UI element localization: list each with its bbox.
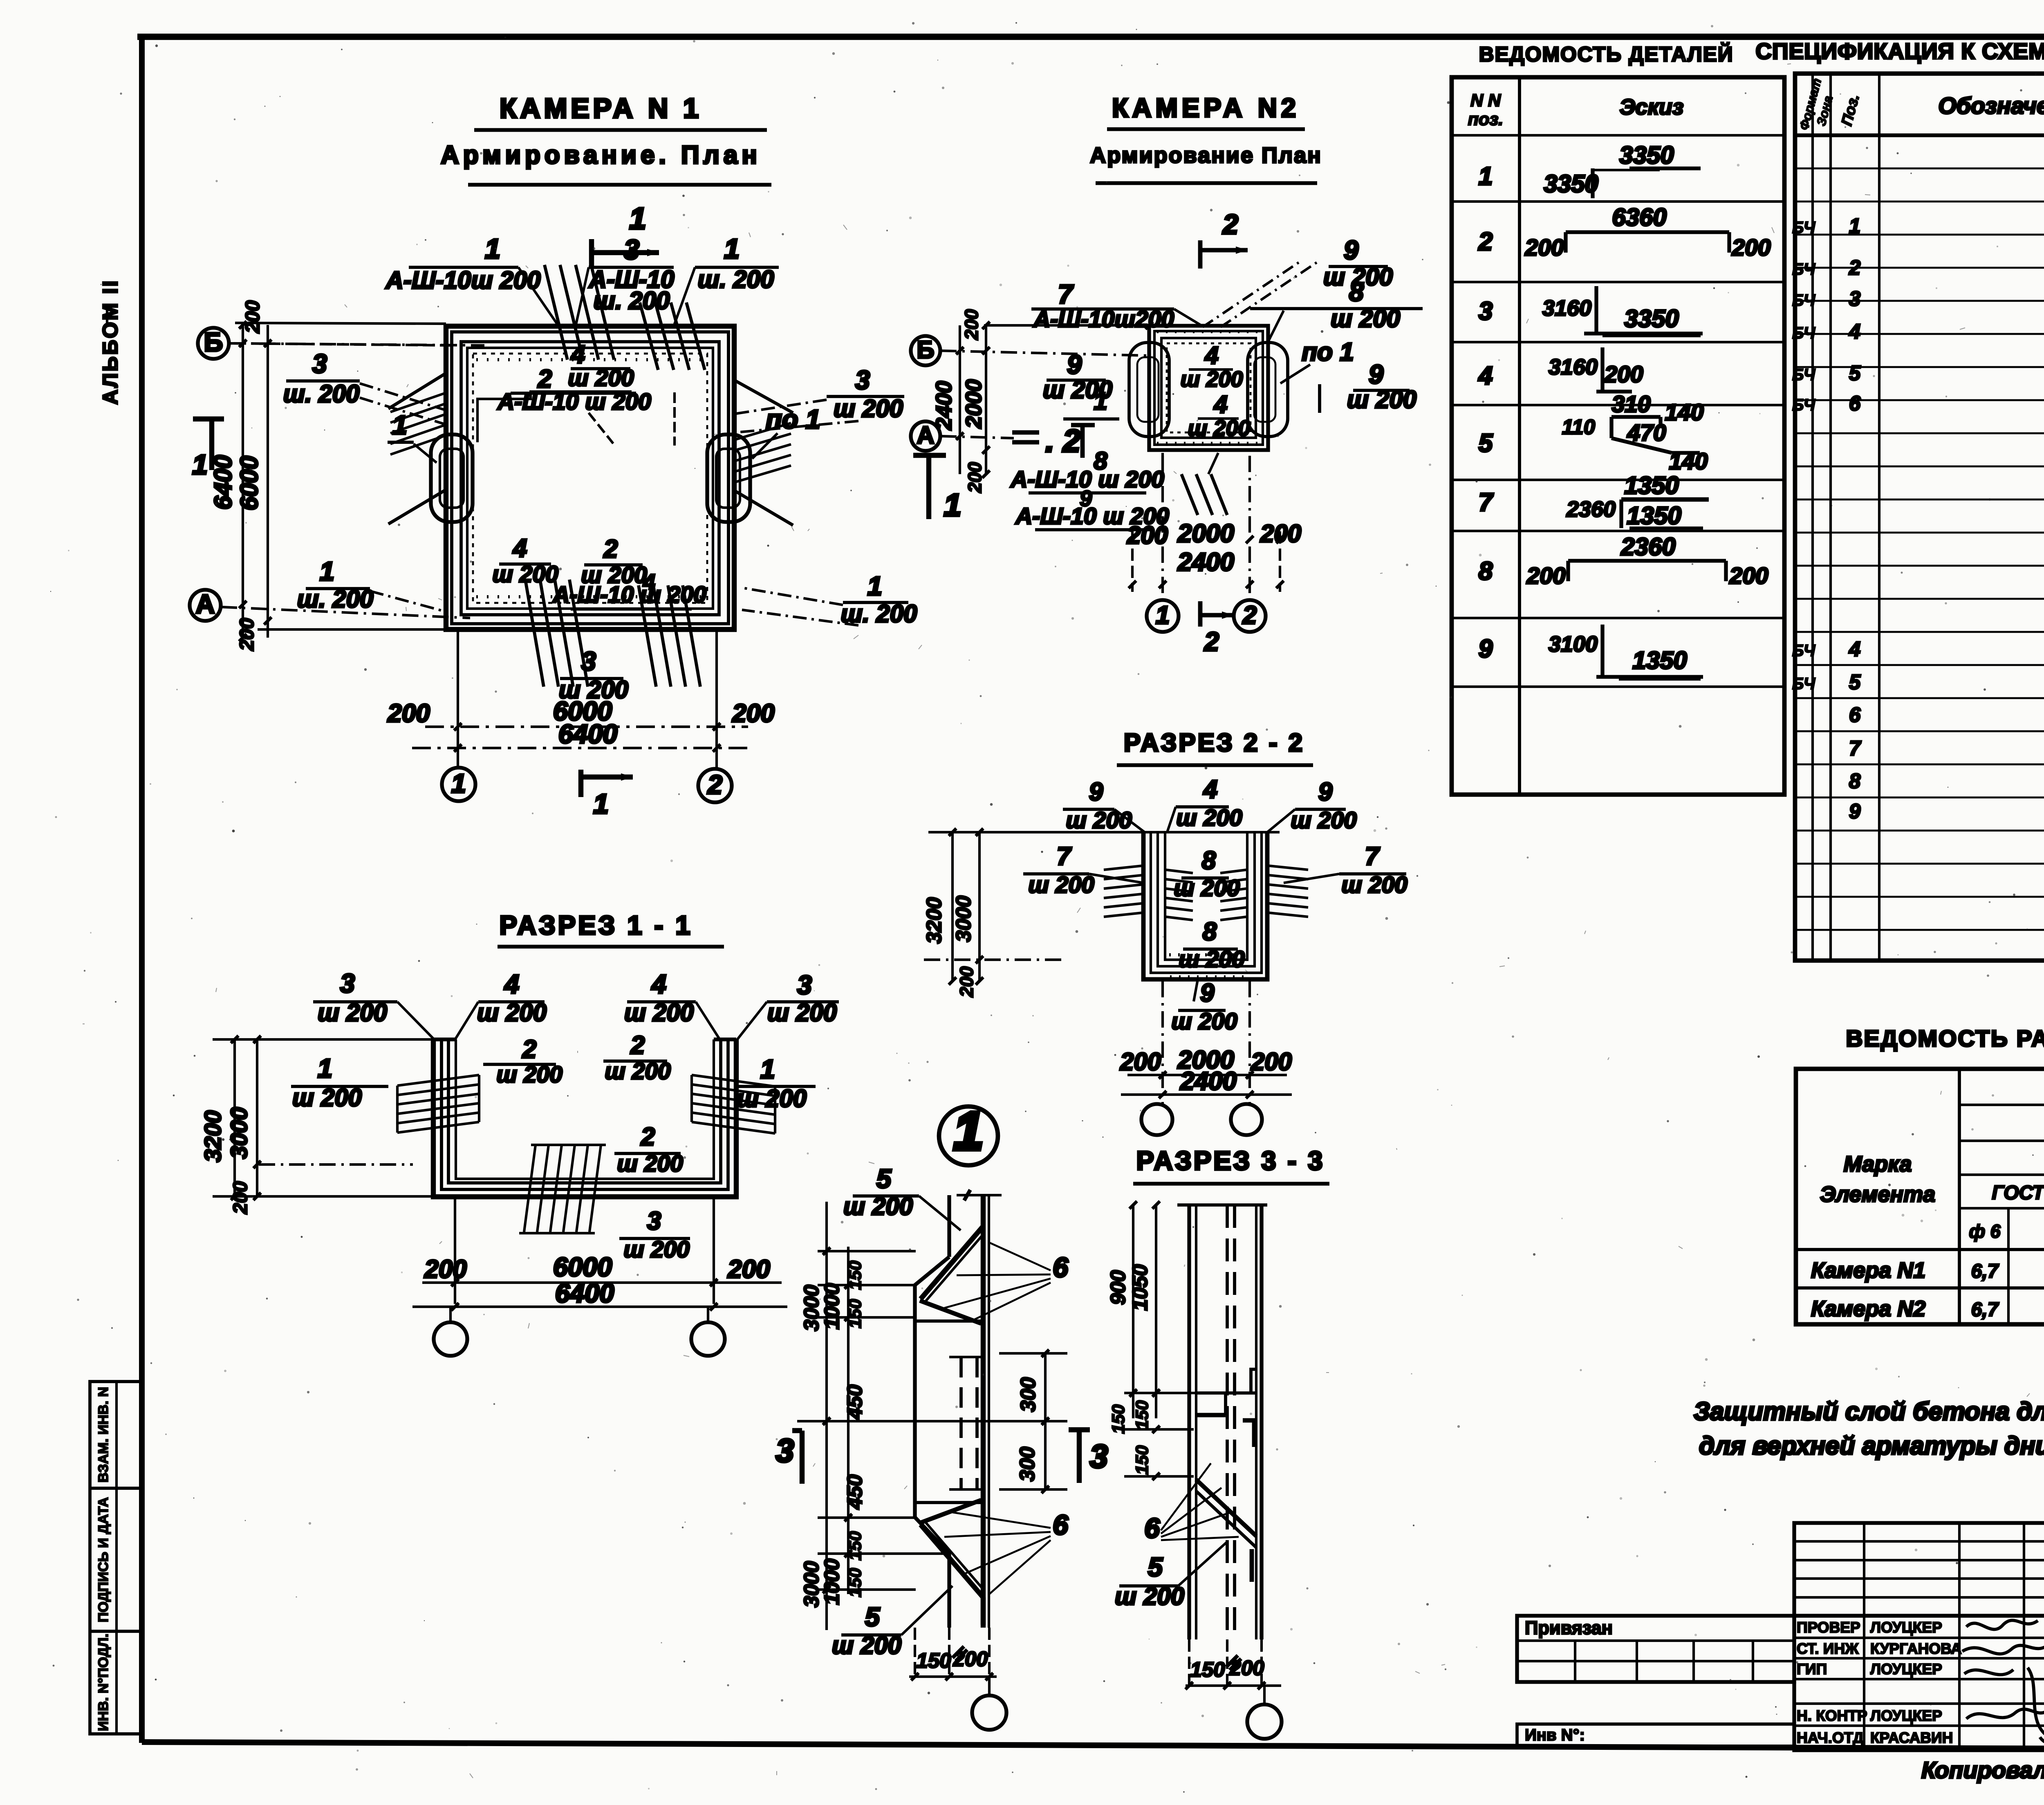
svg-text:СПЕЦИФИКАЦИЯ К СХЕМАМ РАСПОЛОЖ: СПЕЦИФИКАЦИЯ К СХЕМАМ РАСПОЛОЖЕНИЯ АРМАТ… — [1755, 38, 2044, 64]
svg-text:ЛОУЦКЕР: ЛОУЦКЕР — [1870, 1707, 1942, 1724]
svg-text:8: 8 — [1479, 557, 1493, 585]
svg-text:ш. 200: ш. 200 — [283, 380, 360, 408]
svg-text:ВЕДОМОСТЬ РАСХОДА СТАЛИ , КГ: ВЕДОМОСТЬ РАСХОДА СТАЛИ , КГ — [1846, 1026, 2044, 1052]
svg-text:Б: Б — [204, 327, 223, 357]
svg-text:200: 200 — [1120, 1048, 1161, 1075]
svg-text:Армирование План: Армирование План — [1090, 143, 1322, 168]
svg-text:БЧ: БЧ — [1792, 219, 1815, 237]
plan N2 wall rectangles — [1149, 326, 1268, 450]
weld mark 2T plan N2 — [1012, 430, 1039, 435]
svg-text:ш 200: ш 200 — [767, 999, 837, 1026]
section mark 1 left plan N1 — [193, 417, 224, 421]
detail 1 top knee bars — [921, 1226, 983, 1299]
svg-text:140: 140 — [1665, 399, 1703, 425]
dim lines left 2-2 — [951, 832, 954, 981]
hatch bundle top wall left — [545, 265, 567, 360]
svg-text:6400: 6400 — [209, 455, 237, 509]
svg-text:ш 200: ш 200 — [1347, 386, 1416, 413]
svg-text:2: 2 — [1222, 209, 1238, 240]
svg-text:6,7: 6,7 — [1971, 1299, 1999, 1321]
svg-text:2: 2 — [630, 1031, 645, 1059]
svg-text:РАЗРЕЗ 1 - 1: РАЗРЕЗ 1 - 1 — [500, 910, 693, 940]
svg-text:200: 200 — [1127, 522, 1168, 549]
svg-text:Камера N2: Камера N2 — [1811, 1297, 1925, 1321]
svg-text:2: 2 — [641, 1123, 655, 1151]
svg-text:ш 200: ш 200 — [1174, 875, 1240, 901]
svg-text:1: 1 — [629, 202, 646, 235]
svg-text:8: 8 — [1349, 277, 1364, 307]
axis circle 1 plan N2 — [1147, 600, 1179, 632]
svg-text:2: 2 — [707, 770, 722, 799]
svg-text:200: 200 — [1731, 235, 1771, 261]
svg-text:1350: 1350 — [1627, 502, 1681, 529]
title block attach left — [1517, 1616, 1794, 1682]
svg-text:9: 9 — [1089, 778, 1103, 806]
section 3-3 wall strip — [1177, 1203, 1267, 1207]
svg-text:200: 200 — [1260, 520, 1301, 547]
svg-text:2: 2 — [1849, 256, 1860, 279]
svg-text:9: 9 — [1318, 778, 1333, 806]
dim lines left plan N1 — [242, 325, 244, 638]
svg-text:ш 200: ш 200 — [1179, 946, 1245, 972]
svg-text:200: 200 — [727, 1255, 770, 1283]
svg-text:2: 2 — [1478, 228, 1493, 256]
svg-text:ГИП: ГИП — [1797, 1661, 1827, 1677]
svg-text:А-Ш-10ш200: А-Ш-10ш200 — [1033, 306, 1174, 332]
dim lines left plan N2 — [959, 325, 961, 474]
svg-text:9: 9 — [1479, 635, 1493, 663]
svg-text:2: 2 — [1242, 601, 1257, 629]
svg-text:Б: Б — [917, 336, 934, 363]
hatch bundle bottom wall right plan N1 — [639, 585, 656, 687]
axis circle Б plan N1 — [198, 328, 229, 359]
svg-text:1: 1 — [944, 488, 961, 523]
dims 150 shelf 3-3 — [1124, 1392, 1226, 1394]
svg-text:ф 6: ф 6 — [1969, 1221, 2001, 1242]
svg-text:Элемента: Элемента — [1820, 1182, 1935, 1207]
bell mouth lines left plan N1 — [388, 373, 446, 409]
svg-text:5: 5 — [1479, 429, 1493, 457]
detail 1 bottom knee bars — [921, 1525, 983, 1597]
svg-text:1: 1 — [392, 410, 407, 440]
svg-text:ш 200: ш 200 — [1176, 805, 1242, 831]
svg-text:СТ. ИНЖ: СТ. ИНЖ — [1797, 1640, 1859, 1657]
svg-text:ш 200: ш 200 — [318, 999, 387, 1026]
svg-text:Копировал: Коршунова: Копировал: Коршунова — [1921, 1757, 2044, 1783]
title block inv row — [1517, 1724, 1794, 1746]
svg-text:4: 4 — [570, 340, 585, 369]
svg-text:310: 310 — [1611, 391, 1650, 417]
svg-text:Инв N°:: Инв N°: — [1525, 1726, 1585, 1744]
svg-text:3: 3 — [1479, 297, 1493, 325]
axis circle left 2-2 — [1141, 1104, 1172, 1135]
axis circle 1 plan N1 — [442, 768, 475, 801]
hatch bundles walls 2-2 — [1104, 866, 1143, 870]
svg-text:140: 140 — [1669, 448, 1708, 475]
svg-text:КРАСАВИН: КРАСАВИН — [1870, 1729, 1953, 1746]
section mark 1 bottom — [578, 770, 583, 797]
svg-text:3160: 3160 — [1549, 355, 1598, 379]
svg-text:КАМЕРА N2: КАМЕРА N2 — [1112, 93, 1300, 123]
svg-text:300: 300 — [1016, 1377, 1040, 1412]
svg-text:1: 1 — [724, 233, 740, 264]
svg-text:АЛЬБОМ II: АЛЬБОМ II — [99, 279, 122, 405]
svg-text:2400: 2400 — [1180, 1067, 1237, 1095]
svg-text:1: 1 — [954, 1101, 984, 1161]
svg-text:8: 8 — [1849, 769, 1861, 793]
bent bar polyline inside plan N1 — [477, 392, 632, 442]
title block signatures squiggles — [1966, 1620, 2038, 1629]
svg-text:450: 450 — [843, 1474, 866, 1509]
svg-text:БЧ: БЧ — [1792, 366, 1815, 384]
svg-text:2: 2 — [1204, 627, 1219, 656]
svg-text:1000: 1000 — [820, 1283, 843, 1329]
svg-text:ПРОВЕР: ПРОВЕР — [1797, 1619, 1860, 1636]
svg-text:8: 8 — [1203, 918, 1217, 946]
svg-text:Камера N1: Камера N1 — [1811, 1258, 1925, 1283]
svg-text:1000: 1000 — [820, 1559, 843, 1605]
hatch bundle top wall right — [640, 302, 658, 370]
svg-text:ш 200: ш 200 — [624, 999, 694, 1026]
svg-text:470: 470 — [1627, 420, 1666, 446]
svg-text:1: 1 — [451, 768, 466, 798]
dim top plan N2 — [984, 324, 1149, 327]
svg-text:4: 4 — [1203, 775, 1217, 804]
svg-text:4: 4 — [1478, 362, 1493, 390]
svg-text:ш 200: ш 200 — [1171, 1008, 1237, 1035]
svg-text:Привязан: Привязан — [1525, 1617, 1613, 1638]
svg-text:6: 6 — [1849, 392, 1861, 415]
svg-text:БЧ: БЧ — [1792, 396, 1815, 414]
svg-text:А-Ш-10ш 200: А-Ш-10ш 200 — [385, 266, 541, 294]
dim lines bottom 2-2 — [1161, 981, 1164, 1104]
svg-text:4: 4 — [1204, 342, 1218, 369]
axis circle right 2-2 — [1231, 1104, 1262, 1135]
rebar dotted chains plan N2 — [1157, 331, 1259, 333]
svg-text:9: 9 — [1067, 349, 1082, 379]
svg-text:БЧ: БЧ — [1792, 642, 1815, 660]
hatch bundle outside-left 1-1 — [397, 1075, 479, 1086]
svg-text:5: 5 — [865, 1602, 880, 1632]
section 2-2 U walls — [1143, 832, 1267, 979]
svg-text:1: 1 — [593, 788, 609, 820]
svg-text:6400: 6400 — [558, 719, 618, 749]
svg-text:7: 7 — [1479, 488, 1494, 517]
spec table grid — [1795, 74, 2044, 961]
svg-text:ш. 200: ш. 200 — [297, 585, 374, 613]
svg-text:4: 4 — [1849, 320, 1860, 343]
svg-text:ш 200: ш 200 — [292, 1084, 362, 1111]
hatch bundle bottom wall left plan N1 — [525, 580, 544, 687]
svg-text:3: 3 — [797, 970, 812, 1000]
svg-text:БЧ: БЧ — [1792, 324, 1815, 342]
svg-text:200: 200 — [1729, 563, 1768, 589]
svg-text:6000: 6000 — [553, 1252, 612, 1282]
svg-text:3350: 3350 — [1624, 305, 1679, 332]
shelf step 3-3 — [1196, 1391, 1256, 1395]
svg-text:150: 150 — [1132, 1445, 1152, 1475]
svg-text:200: 200 — [236, 618, 258, 651]
svg-text:3100: 3100 — [1549, 632, 1598, 656]
svg-text:900: 900 — [1106, 1270, 1130, 1305]
sheet frame border — [139, 36, 145, 1743]
vedomost detaley table grid — [1452, 77, 1784, 795]
svg-text:9: 9 — [1200, 979, 1215, 1007]
svg-text:3160: 3160 — [1542, 296, 1591, 320]
svg-text:6000: 6000 — [235, 456, 263, 510]
lifting loop right plan N2 — [1248, 343, 1288, 437]
svg-text:200: 200 — [230, 1181, 251, 1214]
dim lines bottom plan N1 — [457, 629, 459, 768]
dim lines bottom 1-1 — [454, 1197, 456, 1304]
svg-text:4: 4 — [1849, 637, 1860, 661]
rebar dots floor 2-2 — [1169, 953, 1243, 956]
svg-text:1050: 1050 — [1128, 1264, 1152, 1310]
lifting loop right plan N1 — [707, 434, 750, 522]
axis circle right 1-1 — [691, 1322, 725, 1356]
svg-text:ПОДПИСЬ И ДАТА: ПОДПИСЬ И ДАТА — [96, 1497, 111, 1622]
svg-text:150: 150 — [845, 1531, 865, 1561]
svg-text:по 1: по 1 — [1302, 338, 1354, 366]
dim lines bottom plan N2 — [1131, 531, 1134, 592]
svg-text:6: 6 — [1053, 1252, 1069, 1283]
leader dashes below plan N2 — [1181, 474, 1198, 515]
svg-text:3350: 3350 — [1544, 170, 1598, 197]
svg-text:2000: 2000 — [961, 379, 986, 429]
axis circle А plan N1 — [190, 590, 221, 621]
axis circle 3-3 — [1247, 1704, 1282, 1739]
svg-text:ш 200: ш 200 — [568, 365, 634, 391]
svg-text:6,7: 6,7 — [1971, 1261, 1999, 1282]
section 1-1 U walls — [433, 1039, 736, 1197]
axis circle 2 plan N1 — [698, 769, 732, 802]
svg-text:Защитный слой бетона для ни: Защитный слой бетона для нижней арматуры… — [1694, 1397, 2044, 1426]
steel table grid — [1796, 1069, 2044, 1324]
svg-text:1: 1 — [1156, 601, 1170, 629]
plan N1 wall rectangles — [446, 326, 734, 629]
svg-text:4: 4 — [504, 969, 519, 999]
svg-text:ш 200: ш 200 — [1188, 416, 1250, 441]
svg-text:3: 3 — [776, 1432, 794, 1469]
svg-text:150: 150 — [845, 1299, 865, 1328]
svg-text:1350: 1350 — [1624, 472, 1679, 499]
rebar dotted chains plan N1 — [476, 358, 705, 361]
svg-text:РАЗРЕЗ 3 - 3: РАЗРЕЗ 3 - 3 — [1136, 1146, 1325, 1176]
svg-text:НАЧ.ОТД: НАЧ.ОТД — [1797, 1729, 1864, 1746]
svg-text:3000: 3000 — [800, 1561, 823, 1607]
svg-text:2000: 2000 — [1177, 520, 1234, 548]
svg-text:3350: 3350 — [1619, 141, 1674, 169]
svg-text:7: 7 — [1849, 737, 1862, 760]
svg-text:БЧ: БЧ — [1792, 260, 1815, 278]
svg-text:2360: 2360 — [1566, 497, 1616, 522]
svg-text:БЧ: БЧ — [1792, 291, 1815, 309]
svg-text:ВЗАМ. ИНВ. N: ВЗАМ. ИНВ. N — [96, 1387, 111, 1483]
svg-text:1: 1 — [760, 1054, 775, 1084]
svg-text:7: 7 — [1365, 842, 1380, 871]
svg-text:поз.: поз. — [1468, 110, 1503, 129]
svg-text:5: 5 — [1148, 1552, 1163, 1582]
title block revision grid — [1794, 1523, 2044, 1616]
svg-text:450: 450 — [843, 1384, 866, 1420]
svg-text:1: 1 — [1479, 162, 1493, 190]
svg-text:150: 150 — [1190, 1658, 1225, 1681]
svg-text:ш 200: ш 200 — [605, 1058, 671, 1084]
dim lines left 1-1 — [233, 1039, 236, 1196]
svg-text:Армирование. План: Армирование. План — [441, 141, 761, 169]
axis circle detail 1 — [972, 1695, 1006, 1730]
knee diagonal 3-3 — [1196, 1480, 1256, 1536]
bell mouth lines right plan N1 — [734, 380, 793, 413]
svg-text:9: 9 — [1849, 799, 1861, 823]
svg-text:КУРГАНОВА: КУРГАНОВА — [1870, 1640, 1962, 1657]
svg-text:ш. 200: ш. 200 — [698, 266, 774, 293]
svg-text:ш 200: ш 200 — [834, 395, 903, 422]
svg-text:5: 5 — [1849, 361, 1861, 385]
section mark 1 top — [589, 239, 594, 268]
svg-text:1: 1 — [192, 449, 208, 480]
svg-text:3200: 3200 — [922, 897, 946, 943]
svg-text:200: 200 — [1251, 1048, 1292, 1075]
svg-text:6360: 6360 — [1612, 204, 1666, 231]
svg-text:1: 1 — [485, 233, 500, 264]
title block signature grid — [1794, 1616, 2044, 1750]
svg-text:150: 150 — [1109, 1404, 1128, 1434]
svg-text:5: 5 — [876, 1164, 892, 1194]
detail 1 left dim columns — [825, 1202, 828, 1630]
svg-text:ш 200: ш 200 — [1291, 807, 1357, 833]
axis circle 2 plan N2 — [1234, 600, 1266, 632]
svg-text:1350: 1350 — [1632, 647, 1687, 674]
svg-text:3000: 3000 — [226, 1107, 252, 1159]
section 2-2 top extension line — [928, 831, 1280, 833]
section mark Т1 right plan N1 — [913, 453, 946, 458]
svg-text:2: 2 — [603, 535, 618, 563]
svg-text:1: 1 — [1094, 387, 1107, 415]
lifting loop left plan N1 — [431, 434, 473, 522]
svg-text:150: 150 — [845, 1568, 865, 1597]
svg-text:N N: N N — [1470, 91, 1501, 110]
dims 300 300 detail 1 — [999, 1352, 1067, 1355]
svg-text:ГОСТ 5781- 82: ГОСТ 5781- 82 — [1992, 1182, 2044, 1204]
dim 900 1050 left 3-3 — [1132, 1205, 1134, 1418]
svg-text:200: 200 — [242, 300, 264, 334]
svg-text:3: 3 — [312, 349, 327, 378]
svg-text:Обозначение: Обозначение — [1938, 93, 2044, 119]
svg-text:3: 3 — [1849, 287, 1860, 310]
detail 1 strip — [947, 1195, 951, 1257]
svg-text:2400: 2400 — [932, 381, 956, 430]
svg-text:3: 3 — [855, 365, 870, 395]
svg-text:150: 150 — [916, 1649, 951, 1672]
svg-text:150: 150 — [1132, 1400, 1152, 1430]
svg-text:ш 200: ш 200 — [1331, 305, 1400, 332]
svg-text:ВЕДОМОСТЬ ДЕТАЛЕЙ: ВЕДОМОСТЬ ДЕТАЛЕЙ — [1479, 42, 1734, 66]
svg-text:ш 200: ш 200 — [832, 1632, 901, 1659]
hatch bundle floor 1-1 — [524, 1145, 536, 1232]
svg-text:200: 200 — [964, 462, 985, 493]
svg-text:1: 1 — [320, 556, 334, 586]
svg-text:200: 200 — [1524, 235, 1564, 261]
svg-text:7: 7 — [1057, 842, 1072, 871]
svg-text:1: 1 — [1849, 214, 1860, 237]
svg-text:4: 4 — [651, 969, 666, 999]
svg-text:3: 3 — [340, 968, 355, 998]
svg-text:9: 9 — [1344, 235, 1358, 265]
svg-text:ЛОУЦКЕР: ЛОУЦКЕР — [1870, 1619, 1942, 1636]
left margin stamp boxes — [90, 1382, 142, 1734]
svg-text:8: 8 — [1202, 847, 1216, 875]
svg-text:6: 6 — [1849, 703, 1861, 726]
dim lines bottom detail 1 — [914, 1628, 916, 1676]
svg-text:КАМЕРА N 1: КАМЕРА N 1 — [500, 93, 702, 124]
svg-text:ш 200: ш 200 — [477, 999, 547, 1026]
svg-text:150: 150 — [845, 1261, 865, 1290]
svg-text:200: 200 — [961, 309, 982, 340]
detail circle 1 — [939, 1106, 998, 1165]
svg-text:ш 200: ш 200 — [1180, 367, 1243, 392]
svg-text:Эскиз: Эскиз — [1620, 95, 1684, 119]
svg-text:2: 2 — [522, 1035, 536, 1064]
svg-text:1: 1 — [318, 1053, 332, 1083]
svg-text:3000: 3000 — [952, 896, 975, 942]
svg-text:4: 4 — [1213, 391, 1227, 418]
svg-text:1: 1 — [867, 571, 882, 601]
svg-text:Н. КОНТР: Н. КОНТР — [1797, 1707, 1867, 1724]
axis circle А plan N2 — [911, 421, 940, 451]
svg-text:2360: 2360 — [1620, 533, 1675, 560]
svg-text:200: 200 — [424, 1255, 466, 1283]
svg-text:3: 3 — [624, 234, 639, 265]
svg-text:6400: 6400 — [555, 1278, 614, 1308]
svg-text:4: 4 — [512, 534, 527, 562]
svg-text:БЧ: БЧ — [1792, 675, 1815, 693]
svg-text:ш 200: ш 200 — [496, 1062, 563, 1088]
svg-text:3200: 3200 — [200, 1110, 226, 1162]
axis circle left 1-1 — [434, 1322, 467, 1356]
section mark 3 right detail 1 — [1077, 1430, 1082, 1483]
svg-text:200: 200 — [1604, 361, 1643, 387]
svg-text:300: 300 — [1015, 1447, 1039, 1481]
svg-text:ш 200: ш 200 — [1028, 872, 1094, 898]
svg-text:для верхней арматуры днища и: для верхней арматуры днища и стен - 20 м… — [1699, 1432, 2044, 1460]
svg-text:3: 3 — [647, 1207, 661, 1235]
svg-text:ш 200: ш 200 — [737, 1085, 807, 1112]
svg-text:6: 6 — [1144, 1513, 1160, 1544]
axis circle Б plan N2 — [911, 336, 940, 365]
svg-text:ИНВ. N°ПОДЛ.: ИНВ. N°ПОДЛ. — [96, 1634, 111, 1731]
svg-text:2400: 2400 — [1177, 548, 1234, 576]
section mark 2 top plan N2 — [1198, 240, 1203, 269]
svg-text:110: 110 — [1562, 415, 1595, 439]
svg-text:5: 5 — [1849, 670, 1861, 694]
svg-text:200: 200 — [956, 966, 977, 997]
svg-text:3000: 3000 — [800, 1285, 823, 1331]
hatch bundle outside-right 1-1 — [692, 1075, 775, 1086]
scan noise speckles — [1674, 56, 1676, 58]
svg-text:3: 3 — [581, 646, 596, 676]
svg-text:ЛОУЦКЕР: ЛОУЦКЕР — [1870, 1661, 1942, 1677]
svg-text:200: 200 — [732, 699, 774, 728]
svg-text:3: 3 — [1090, 1438, 1108, 1474]
dim lines bottom 3-3 — [1188, 1639, 1190, 1685]
svg-text:6: 6 — [1053, 1509, 1069, 1541]
svg-text:ш 200: ш 200 — [1341, 872, 1407, 898]
svg-text:ш 200: ш 200 — [617, 1151, 683, 1177]
svg-text:200: 200 — [1526, 563, 1565, 589]
svg-text:А: А — [196, 589, 215, 619]
section mark 2 bottom plan N2 — [1198, 601, 1203, 627]
